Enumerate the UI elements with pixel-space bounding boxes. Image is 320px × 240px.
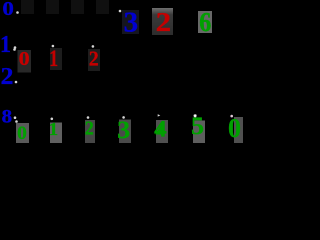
marker dot bbox=[122, 116, 125, 119]
marker dot bbox=[92, 45, 95, 48]
svg-text:2: 2 bbox=[85, 118, 94, 140]
red digit 2 on gray patch (top right group) bbox=[152, 6, 173, 37]
marker dot bbox=[14, 116, 17, 119]
svg-text:5: 5 bbox=[191, 111, 204, 140]
red digit 1 (middle row) bbox=[49, 46, 62, 72]
marker dot bbox=[16, 11, 19, 14]
svg-text:2: 2 bbox=[89, 47, 99, 71]
svg-text:0: 0 bbox=[19, 48, 30, 70]
svg-text:2: 2 bbox=[156, 6, 172, 37]
svg-text:0: 0 bbox=[228, 113, 241, 143]
marker dot bbox=[13, 48, 16, 51]
green digit 4 (bottom row) bbox=[154, 117, 168, 144]
blue digit 3 on dark patch (top right group) bbox=[122, 8, 139, 39]
svg-text:0: 0 bbox=[2, 0, 14, 20]
svg-text:6: 6 bbox=[199, 6, 211, 37]
svg-text:0: 0 bbox=[17, 123, 27, 143]
blue digit 0 (left column) bbox=[2, 0, 14, 20]
red digit 2 (middle row) bbox=[88, 47, 100, 72]
svg-text:2: 2 bbox=[1, 64, 14, 90]
green digit 0 (bottom row, rightmost) bbox=[228, 113, 243, 143]
svg-text:1: 1 bbox=[49, 46, 58, 72]
svg-text:3: 3 bbox=[117, 115, 130, 143]
blue digit 1 (left column) bbox=[0, 32, 11, 58]
green digit 0 (bottom row) bbox=[16, 123, 29, 144]
blue digit 2 (left column) bbox=[1, 64, 14, 90]
marker dot bbox=[15, 81, 18, 84]
marker dot bbox=[230, 115, 233, 118]
green digit 5 (bottom row) bbox=[191, 111, 205, 143]
marker dot bbox=[87, 116, 90, 119]
svg-text:8: 8 bbox=[2, 107, 13, 128]
red digit 0 (middle row) bbox=[18, 48, 32, 73]
marker dot bbox=[51, 118, 54, 121]
marker dot bbox=[14, 46, 17, 49]
svg-text:3: 3 bbox=[124, 8, 139, 39]
marker dot bbox=[52, 45, 55, 48]
marker star bbox=[193, 114, 197, 118]
marker dot bbox=[15, 120, 18, 123]
svg-text:1: 1 bbox=[49, 119, 59, 139]
green digit 1 (bottom row) bbox=[49, 119, 62, 143]
svg-text:1: 1 bbox=[0, 32, 11, 58]
ghost thumbnail patches along top bbox=[21, 0, 109, 14]
marker dot bbox=[119, 10, 122, 13]
blue digit 8 (left column bottom) bbox=[2, 107, 13, 128]
green digit 2 (bottom row) bbox=[85, 118, 95, 143]
marker arrow bbox=[158, 114, 161, 116]
green digit 3 (bottom row) bbox=[117, 115, 131, 144]
green digit 6 on gray patch (top right group) bbox=[198, 6, 212, 37]
